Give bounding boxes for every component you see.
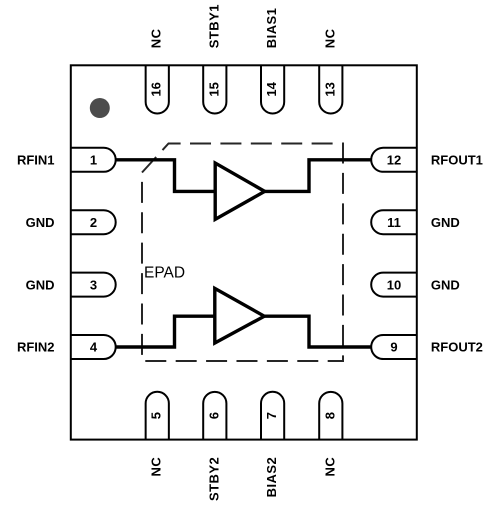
svg-text:5: 5: [149, 412, 164, 419]
svg-text:12: 12: [387, 153, 401, 168]
svg-text:BIAS2: BIAS2: [264, 457, 279, 498]
svg-text:EPAD: EPAD: [144, 264, 185, 281]
svg-text:15: 15: [206, 82, 221, 96]
svg-text:2: 2: [90, 215, 97, 230]
svg-text:3: 3: [90, 277, 97, 292]
svg-text:NC: NC: [322, 28, 337, 48]
svg-text:GND: GND: [431, 277, 460, 292]
svg-text:NC: NC: [322, 457, 337, 477]
svg-text:1: 1: [90, 153, 97, 168]
svg-text:8: 8: [322, 412, 337, 419]
svg-text:RFIN1: RFIN1: [17, 153, 55, 168]
svg-text:14: 14: [264, 81, 279, 96]
svg-text:GND: GND: [26, 215, 55, 230]
svg-text:7: 7: [264, 412, 279, 419]
svg-text:9: 9: [390, 340, 397, 355]
svg-text:NC: NC: [149, 457, 164, 477]
svg-text:6: 6: [206, 412, 221, 419]
svg-text:STBY2: STBY2: [206, 457, 221, 501]
svg-text:STBY1: STBY1: [206, 4, 221, 48]
svg-text:NC: NC: [149, 28, 164, 48]
svg-text:13: 13: [322, 82, 337, 96]
svg-text:RFIN2: RFIN2: [17, 340, 55, 355]
svg-text:16: 16: [149, 82, 164, 96]
svg-text:GND: GND: [26, 277, 55, 292]
svg-text:RFOUT2: RFOUT2: [431, 340, 483, 355]
svg-text:10: 10: [387, 277, 401, 292]
svg-text:BIAS1: BIAS1: [264, 8, 279, 49]
svg-text:11: 11: [387, 215, 401, 230]
svg-text:4: 4: [90, 340, 98, 355]
svg-text:GND: GND: [431, 215, 460, 230]
svg-text:RFOUT1: RFOUT1: [431, 153, 483, 168]
